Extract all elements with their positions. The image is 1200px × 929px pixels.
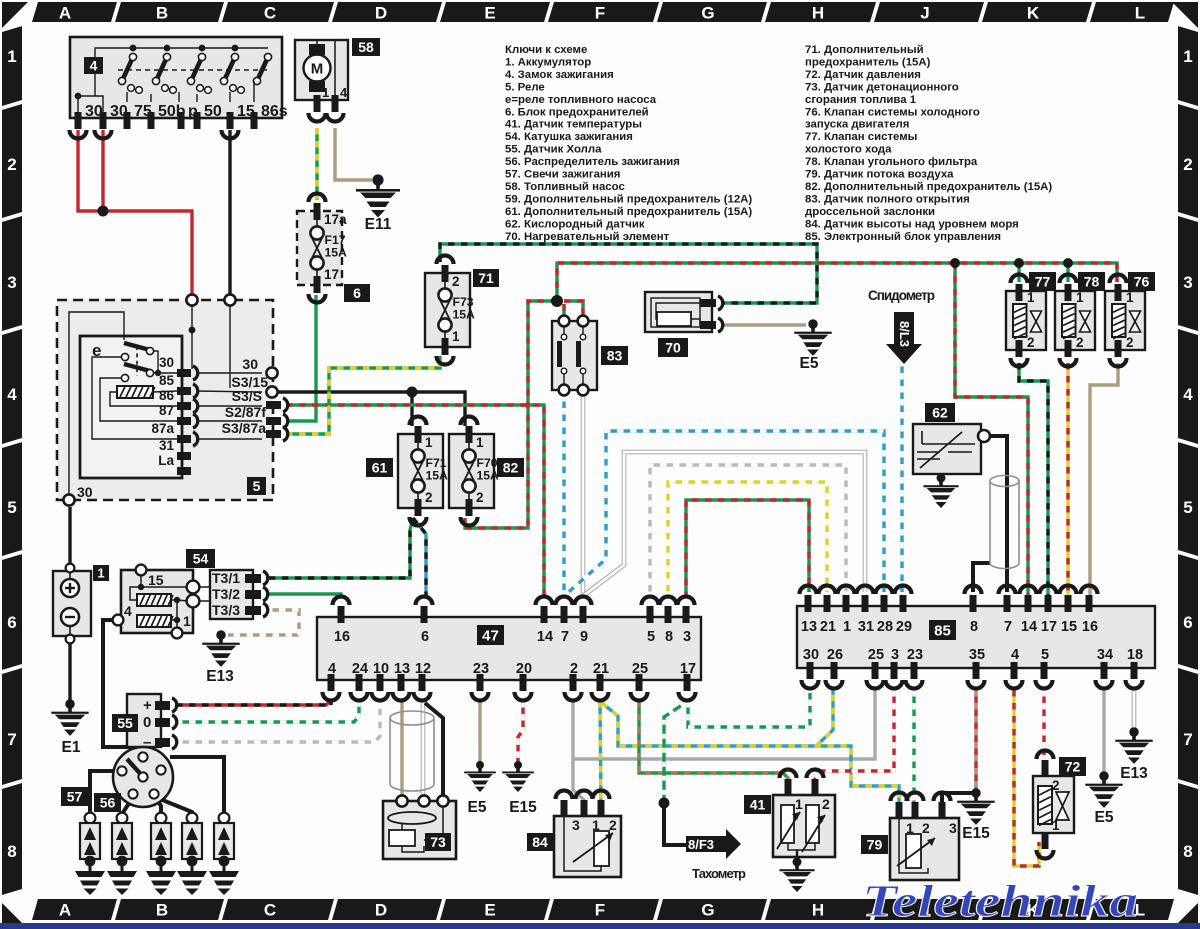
85 pin 1 top bbox=[843, 595, 850, 612]
85 pin 16 top bbox=[1086, 595, 1093, 612]
svg-text:7: 7 bbox=[7, 730, 16, 749]
relay terminal rects bbox=[177, 369, 191, 377]
svg-text:дроссельной заслонки: дроссельной заслонки bbox=[805, 206, 935, 218]
svg-text:6: 6 bbox=[7, 613, 16, 632]
svg-text:3: 3 bbox=[572, 817, 580, 833]
svg-text:77: 77 bbox=[1035, 274, 1051, 290]
svg-text:77. Клапан системы: 77. Клапан системы bbox=[805, 131, 917, 143]
label 78 bbox=[1078, 272, 1105, 291]
47 pin 4 bottom bbox=[328, 674, 335, 691]
svg-text:сгорания топлива 1: сгорания топлива 1 bbox=[805, 94, 917, 106]
svg-text:87: 87 bbox=[159, 403, 174, 418]
wire bbox=[973, 563, 990, 592]
85 pin 34 bottom bbox=[1101, 662, 1108, 679]
svg-text:47: 47 bbox=[482, 627, 499, 644]
svg-text:9: 9 bbox=[580, 629, 588, 645]
ground E5 bottom bbox=[464, 761, 496, 816]
svg-text:7: 7 bbox=[1004, 619, 1012, 635]
wire red/green to 83 right bbox=[564, 301, 583, 321]
relay 30 outer circle bbox=[266, 367, 277, 378]
fuel pump motor bbox=[309, 44, 325, 55]
wire bbox=[90, 771, 117, 814]
wire bbox=[68, 641, 71, 702]
wire bbox=[400, 701, 403, 796]
wire bbox=[146, 782, 161, 814]
wire bbox=[130, 747, 143, 757]
component 73 box bbox=[383, 801, 456, 859]
svg-text:10: 10 bbox=[373, 661, 389, 677]
47 pin 23 bottom bbox=[477, 674, 484, 691]
85 pin 14 top bbox=[1025, 595, 1032, 612]
svg-text:26: 26 bbox=[827, 647, 843, 663]
wire bbox=[68, 507, 71, 566]
ignition coil 54 bbox=[121, 570, 193, 633]
svg-text:70: 70 bbox=[665, 340, 681, 356]
47 pin 24 bottom bbox=[356, 674, 363, 691]
47 pin 17 bottom bbox=[684, 674, 691, 691]
svg-text:71. Дополнительный: 71. Дополнительный bbox=[805, 44, 924, 56]
svg-text:4: 4 bbox=[7, 385, 17, 404]
connector 47 strip bbox=[317, 617, 701, 680]
svg-text:17: 17 bbox=[324, 267, 339, 282]
svg-text:4: 4 bbox=[1011, 647, 1019, 663]
svg-text:3: 3 bbox=[683, 629, 691, 645]
svg-text:L: L bbox=[1135, 4, 1145, 23]
label 41 bbox=[744, 795, 771, 814]
svg-text:6: 6 bbox=[353, 285, 361, 301]
label 85 bbox=[929, 620, 956, 640]
svg-text:холостого хода: холостого хода bbox=[805, 144, 892, 156]
spark plug 57 at 192 bbox=[182, 813, 202, 867]
svg-text:F: F bbox=[595, 4, 605, 23]
label 47 bbox=[477, 625, 504, 645]
svg-text:5: 5 bbox=[1041, 647, 1049, 663]
47 pin 16 top bbox=[338, 606, 345, 623]
svg-text:+: + bbox=[143, 697, 152, 714]
wire blue/black fuse61 to 47.6 bbox=[413, 518, 426, 598]
svg-text:E15: E15 bbox=[509, 799, 537, 816]
svg-text:5: 5 bbox=[647, 629, 655, 645]
85 pin 25 bottom bbox=[872, 662, 879, 679]
85 pin 28 top bbox=[881, 595, 888, 612]
wire gray/white loop 47.5-85.1 bbox=[650, 465, 846, 598]
watermark bbox=[862, 877, 1138, 927]
svg-text:4: 4 bbox=[340, 85, 348, 100]
spark plug 57 at 122 bbox=[112, 813, 132, 867]
wire bbox=[100, 211, 192, 296]
label 72 bbox=[1059, 757, 1086, 776]
svg-text:18: 18 bbox=[1127, 647, 1143, 663]
svg-text:8/L3: 8/L3 bbox=[897, 321, 912, 347]
wire green/black 77 to 85.17 bbox=[1019, 363, 1048, 598]
svg-text:3: 3 bbox=[949, 820, 957, 836]
fuse 82 F70 bbox=[449, 417, 499, 526]
85 pin 23 bottom bbox=[911, 662, 918, 679]
component 62 box bbox=[913, 424, 981, 474]
svg-text:B: B bbox=[156, 4, 168, 23]
frame corner top-right bbox=[1172, 2, 1198, 28]
wire bbox=[1017, 263, 1020, 282]
oxygen sensor cylinder bbox=[990, 481, 1019, 569]
frame corner bottom-right bbox=[1172, 903, 1198, 929]
junction black S3/15 bbox=[407, 387, 418, 398]
svg-text:S3/S: S3/S bbox=[232, 388, 262, 404]
spark plug 57 at 90 bbox=[80, 813, 100, 867]
svg-text:A: A bbox=[59, 901, 71, 920]
svg-text:E5: E5 bbox=[468, 799, 487, 816]
ground E15 right bbox=[957, 788, 994, 842]
wire white 85.18 to E13 bbox=[1132, 690, 1137, 730]
svg-text:15A: 15A bbox=[426, 469, 449, 483]
label 77 bbox=[1029, 272, 1056, 291]
svg-text:83. Датчик полного открытия: 83. Датчик полного открытия bbox=[805, 193, 970, 205]
svg-text:15A: 15A bbox=[325, 246, 348, 260]
svg-text:1: 1 bbox=[7, 47, 16, 66]
svg-text:15: 15 bbox=[148, 572, 164, 588]
79 pin 3 bbox=[939, 802, 946, 819]
47 pin 9 top bbox=[580, 606, 587, 623]
ground 62 bbox=[923, 474, 958, 508]
85 pin 8 top bbox=[970, 595, 977, 612]
distributor 56 bbox=[113, 747, 173, 807]
svg-text:34: 34 bbox=[1097, 647, 1113, 663]
wire gray/white hall- to 47.10 bbox=[176, 701, 380, 742]
svg-text:4: 4 bbox=[1183, 385, 1193, 404]
svg-text:86s: 86s bbox=[261, 103, 288, 120]
relay 5 outer dashed box bbox=[57, 300, 273, 500]
svg-text:е=реле топливного насоса: е=реле топливного насоса bbox=[505, 94, 657, 106]
wire bbox=[987, 436, 1007, 592]
wire red/green to fuse82 bbox=[465, 301, 557, 528]
svg-text:73. Датчик детонационного: 73. Датчик детонационного bbox=[805, 81, 959, 93]
svg-text:41. Датчик температуры: 41. Датчик температуры bbox=[505, 119, 642, 131]
svg-text:E11: E11 bbox=[365, 216, 392, 233]
svg-text:M: M bbox=[311, 61, 324, 78]
85 pin 15 top bbox=[1065, 595, 1072, 612]
svg-text:1: 1 bbox=[1126, 290, 1134, 305]
svg-text:1: 1 bbox=[1183, 47, 1192, 66]
ground 41 bbox=[779, 858, 814, 892]
svg-text:7: 7 bbox=[561, 629, 569, 645]
svg-text:24: 24 bbox=[352, 661, 368, 677]
hall sensor 55 box bbox=[127, 694, 161, 747]
relay S2/87f connector bbox=[266, 417, 281, 425]
svg-text:14: 14 bbox=[537, 629, 553, 645]
svg-text:8/F3: 8/F3 bbox=[688, 837, 714, 852]
svg-text:71: 71 bbox=[478, 270, 494, 286]
wire bbox=[664, 803, 686, 845]
label 73 bbox=[425, 833, 451, 851]
svg-text:2: 2 bbox=[1183, 155, 1192, 174]
relay inner box bbox=[80, 336, 182, 478]
svg-text:E5: E5 bbox=[800, 355, 819, 372]
wire green 47.17 to tach bbox=[664, 703, 685, 803]
svg-text:41: 41 bbox=[750, 797, 766, 813]
svg-text:8: 8 bbox=[665, 629, 673, 645]
svg-text:D: D bbox=[375, 4, 387, 23]
svg-text:29: 29 bbox=[896, 619, 912, 635]
svg-text:1: 1 bbox=[843, 619, 851, 635]
svg-text:31: 31 bbox=[858, 619, 874, 635]
svg-text:S3/87a: S3/87a bbox=[222, 420, 267, 436]
svg-text:2: 2 bbox=[425, 490, 433, 505]
svg-text:79: 79 bbox=[867, 837, 883, 853]
svg-text:2: 2 bbox=[1076, 335, 1084, 350]
svg-text:J: J bbox=[920, 4, 929, 23]
wire bbox=[1090, 363, 1118, 598]
41 pin 1 bbox=[785, 779, 792, 796]
svg-text:1: 1 bbox=[425, 435, 433, 450]
wire yellow/white loop 47.8-85.21 bbox=[668, 482, 827, 598]
component 72 box bbox=[1033, 776, 1074, 833]
wire red/green to 83 left bbox=[562, 304, 565, 321]
relay S3/S connector bbox=[266, 401, 281, 409]
label 4 bbox=[84, 57, 103, 74]
svg-text:17: 17 bbox=[680, 661, 696, 677]
label 83 bbox=[601, 346, 628, 365]
junction red/green bbox=[551, 295, 563, 307]
junction bbox=[950, 258, 960, 268]
svg-text:20: 20 bbox=[516, 661, 532, 677]
svg-text:E5: E5 bbox=[1095, 809, 1114, 826]
frame corner top-left bbox=[2, 2, 28, 28]
wire green/black fuse71 to 70 bbox=[440, 244, 817, 303]
svg-text:2: 2 bbox=[1126, 335, 1134, 350]
relay internals bbox=[124, 343, 150, 350]
svg-text:15: 15 bbox=[1061, 619, 1077, 635]
relay S3/15 circle bbox=[266, 386, 277, 397]
junction red bbox=[98, 206, 109, 217]
label 55 bbox=[112, 714, 138, 732]
valve 78 bbox=[1055, 275, 1095, 367]
svg-text:83: 83 bbox=[607, 348, 623, 364]
label 82 bbox=[497, 458, 524, 477]
svg-text:предохранитель (15А): предохранитель (15А) bbox=[805, 56, 931, 68]
shield cylinder 73 bbox=[390, 718, 434, 791]
47 pin 20 bottom bbox=[520, 674, 527, 691]
svg-text:25: 25 bbox=[868, 647, 884, 663]
svg-text:E: E bbox=[484, 4, 495, 23]
svg-text:62. Кислородный датчик: 62. Кислородный датчик bbox=[505, 218, 645, 230]
component 84 box bbox=[554, 816, 621, 877]
svg-text:8: 8 bbox=[970, 619, 978, 635]
svg-text:57. Свечи зажигания: 57. Свечи зажигания bbox=[505, 169, 620, 181]
wire bbox=[170, 757, 224, 814]
svg-text:78: 78 bbox=[1084, 274, 1100, 290]
stub bbox=[329, 701, 332, 705]
wire red/green to valve 76 bbox=[557, 263, 1117, 301]
wire green/white 47.17 to 85.30 bbox=[688, 690, 810, 727]
wire green/red loop 47.3-85.13 bbox=[686, 500, 809, 598]
junction bbox=[1063, 258, 1073, 268]
84 pin 2 bbox=[598, 800, 605, 817]
wire yellow/red 85.4 to 72.1 bbox=[1014, 690, 1039, 866]
svg-text:15A: 15A bbox=[477, 469, 500, 483]
svg-text:30: 30 bbox=[77, 484, 93, 500]
battery 1 bbox=[53, 571, 91, 636]
svg-text:14: 14 bbox=[1021, 619, 1037, 635]
47 pin 14 top bbox=[541, 606, 548, 623]
svg-text:30: 30 bbox=[803, 647, 819, 663]
wire bbox=[101, 130, 104, 214]
47 pin 10 bottom bbox=[377, 674, 384, 691]
component 70 box bbox=[645, 292, 712, 332]
relay S3/87a connector bbox=[266, 430, 281, 438]
relay bottom 30 circle bbox=[63, 494, 74, 505]
svg-text:84. Датчик высоты над уровнем: 84. Датчик высоты над уровнем моря bbox=[805, 218, 1019, 230]
svg-text:S2/87f: S2/87f bbox=[225, 404, 267, 420]
svg-text:A: A bbox=[59, 4, 71, 23]
wire bbox=[1066, 263, 1069, 282]
svg-text:13: 13 bbox=[394, 661, 410, 677]
svg-text:54. Катушка зажигания: 54. Катушка зажигания bbox=[505, 131, 633, 143]
wire red/black hall+ to 47.4 bbox=[176, 700, 331, 705]
junction tach bbox=[659, 798, 670, 809]
svg-text:G: G bbox=[701, 901, 714, 920]
svg-text:87a: 87a bbox=[151, 421, 174, 436]
wire green/white 85.23 to 79.2 bbox=[912, 690, 915, 806]
svg-text:82. Дополнительный предохранит: 82. Дополнительный предохранитель (15А) bbox=[805, 181, 1052, 193]
svg-text:Teletehnika: Teletehnika bbox=[862, 877, 1138, 927]
ground E5 right bbox=[1085, 771, 1122, 826]
svg-text:E1: E1 bbox=[62, 739, 81, 756]
svg-text:1: 1 bbox=[322, 85, 329, 100]
fuse 61 F71 bbox=[398, 417, 448, 526]
85 pin 13 top bbox=[805, 595, 812, 612]
ignition switch 4 box bbox=[70, 37, 282, 118]
svg-text:B: B bbox=[156, 901, 168, 920]
svg-text:85: 85 bbox=[934, 622, 951, 639]
label 1 bbox=[93, 565, 109, 581]
label 71 bbox=[473, 269, 499, 287]
svg-text:1: 1 bbox=[795, 796, 803, 812]
svg-text:C: C bbox=[264, 4, 276, 23]
svg-text:84: 84 bbox=[532, 834, 548, 850]
svg-text:2: 2 bbox=[822, 796, 830, 812]
label 61 bbox=[366, 458, 393, 477]
label 56 bbox=[94, 793, 121, 812]
wire blue/yellow 47.21 branch bbox=[602, 703, 899, 806]
svg-text:H: H bbox=[812, 4, 824, 23]
wire bbox=[942, 793, 976, 806]
wire bbox=[103, 620, 140, 754]
component 41 box bbox=[773, 795, 835, 857]
svg-text:13: 13 bbox=[801, 619, 817, 635]
wire bbox=[573, 690, 875, 759]
fuel pump pins 1 and 4 bbox=[314, 95, 321, 112]
spark plug 57 at 161 bbox=[151, 813, 171, 867]
79 pin 1 bbox=[896, 802, 903, 819]
svg-text:2: 2 bbox=[1052, 778, 1060, 793]
svg-text:La: La bbox=[158, 453, 174, 468]
svg-text:E13: E13 bbox=[206, 668, 234, 685]
svg-text:25: 25 bbox=[632, 661, 648, 677]
svg-text:17a: 17a bbox=[324, 212, 347, 227]
svg-text:4: 4 bbox=[124, 603, 132, 619]
svg-text:21: 21 bbox=[593, 661, 609, 677]
47 pin 21 bottom bbox=[597, 674, 604, 691]
label 6 bbox=[344, 284, 370, 302]
svg-text:E13: E13 bbox=[1120, 765, 1148, 782]
ground spark plug bbox=[107, 856, 137, 895]
svg-text:Тахометр: Тахометр bbox=[692, 866, 746, 881]
wire green/yellow pump to fuse bbox=[315, 128, 318, 200]
label 58 bbox=[352, 38, 380, 56]
svg-text:4: 4 bbox=[328, 661, 336, 677]
svg-text:1: 1 bbox=[183, 613, 191, 629]
svg-text:58. Топливный насос: 58. Топливный насос bbox=[505, 181, 625, 193]
border frame left bar bbox=[2, 26, 22, 106]
svg-text:G: G bbox=[701, 4, 714, 23]
svg-text:5: 5 bbox=[7, 498, 16, 517]
ground E13 coil bbox=[202, 630, 239, 685]
svg-text:C: C bbox=[264, 901, 276, 920]
wire tan/white T3/3 to E13 bbox=[228, 610, 299, 635]
svg-text:56. Распределитель зажигания: 56. Распределитель зажигания bbox=[505, 156, 680, 168]
ground spark plug bbox=[75, 856, 105, 895]
svg-text:1: 1 bbox=[476, 435, 484, 450]
svg-text:5: 5 bbox=[253, 478, 261, 494]
svg-text:3: 3 bbox=[891, 647, 899, 663]
svg-text:76: 76 bbox=[1134, 274, 1150, 290]
svg-text:1: 1 bbox=[1027, 290, 1035, 305]
svg-text:21: 21 bbox=[820, 619, 836, 635]
svg-text:5: 5 bbox=[1183, 498, 1192, 517]
wire white 47.12 to 73 bbox=[421, 701, 426, 796]
85 pin 3 bottom bbox=[891, 662, 898, 679]
wire yellow/red 78 to 85.15 bbox=[1066, 363, 1069, 598]
svg-text:16: 16 bbox=[334, 629, 350, 645]
fuse 71 F73 bbox=[425, 256, 475, 365]
svg-text:6: 6 bbox=[1183, 613, 1192, 632]
svg-text:23: 23 bbox=[907, 647, 923, 663]
svg-text:86: 86 bbox=[159, 388, 175, 403]
wire red/tan 85.35 to E15 bbox=[974, 690, 977, 791]
wire bbox=[78, 130, 100, 211]
wire blue/yellow 47.21 to 84.2 bbox=[600, 701, 601, 806]
relay left 30 line bbox=[69, 312, 124, 495]
svg-text:85: 85 bbox=[159, 373, 175, 388]
47 pin 2 bottom bbox=[570, 674, 577, 691]
border frame top bar bbox=[32, 2, 117, 22]
wire bbox=[228, 130, 231, 296]
wire bbox=[122, 797, 133, 814]
wire blue/white 83 to 47.7 bbox=[562, 395, 565, 598]
svg-text:2: 2 bbox=[922, 820, 930, 836]
wire red/white 47.20 to E15 bbox=[518, 701, 523, 763]
85 pin 7 top bbox=[1004, 595, 1011, 612]
ground E15 bottom bbox=[502, 761, 537, 816]
84 pin 3 bbox=[561, 800, 568, 817]
85 pin 21 top bbox=[824, 595, 831, 612]
85 pin 29 top bbox=[900, 595, 907, 612]
svg-text:35: 35 bbox=[969, 647, 985, 663]
47 pin 7 top bbox=[561, 606, 568, 623]
svg-text:50: 50 bbox=[204, 103, 222, 120]
svg-text:72: 72 bbox=[1065, 759, 1081, 775]
ground E5 top bbox=[794, 319, 831, 372]
wire bbox=[335, 128, 372, 180]
wire white loop 47.9-85.31 bbox=[583, 452, 865, 596]
svg-text:8: 8 bbox=[1183, 842, 1192, 861]
wire bbox=[276, 392, 465, 426]
svg-text:2: 2 bbox=[570, 661, 578, 677]
wire green/red S3/S to 47.14 bbox=[286, 405, 544, 598]
47 pin 3 top bbox=[683, 606, 690, 623]
ignition switch pins bbox=[75, 112, 82, 129]
border frame right bar bbox=[1178, 26, 1198, 106]
ground spark plug bbox=[146, 856, 176, 895]
